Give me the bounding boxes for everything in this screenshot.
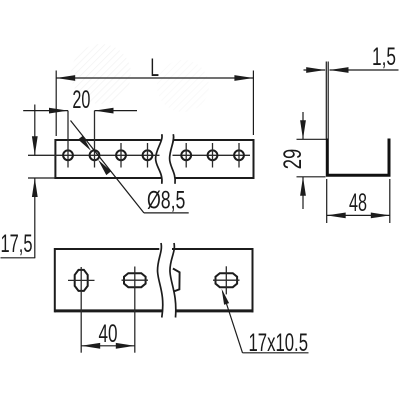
- arrow at hole H2 lower right: [98, 160, 111, 175]
- svg-text:29: 29: [279, 149, 307, 170]
- strip outline top view: [55, 139, 254, 179]
- svg-text:48: 48: [349, 189, 367, 217]
- break line S3 bottom view: [158, 243, 163, 318]
- leader diameter 8,5 line through hole H2: [71, 121, 144, 213]
- dimension 17,5 extension line bottom: [28, 177, 55, 179]
- wall face projection double line: [325, 62, 327, 139]
- watermark logo hatched circle: [71, 44, 209, 112]
- hole H4 round: [143, 150, 153, 160]
- horizontal centerline left segment: [28, 154, 160, 156]
- dimension 29 lower segment up arrow: [302, 177, 304, 209]
- break line S1 top view: [156, 134, 162, 184]
- dimension 48 line with arrows: [327, 214, 390, 216]
- hole H2 round: [90, 150, 100, 160]
- break line S2 top view: [170, 134, 176, 184]
- dimension 17,5 vertical line lower segment with up arrow: [34, 178, 36, 258]
- dimension 40 extension lines: [80, 311, 82, 353]
- svg-text:1,5: 1,5: [372, 43, 396, 71]
- dimension 20 line with outside arrows: [23, 110, 68, 112]
- break line S4 bottom view: [170, 243, 176, 318]
- vertical centerlines holes H3-H7: [121, 143, 239, 168]
- slot fragment at break: [173, 269, 180, 292]
- svg-text:17,5: 17,5: [1, 230, 33, 258]
- strip outline bottom view: [55, 248, 253, 312]
- hole H6 round: [208, 150, 218, 160]
- label 17x10.5 leader with arrow to slot O3: [223, 292, 243, 353]
- leader shelf 8,5: [144, 212, 189, 214]
- dimension 48 extension lines: [326, 179, 328, 223]
- U profile thick outline: [327, 139, 389, 176]
- dimension 17,5 underline: [1, 257, 36, 259]
- slot O3 horizontal oblong: [216, 273, 238, 287]
- svg-text:Ø8,5: Ø8,5: [147, 186, 185, 214]
- horizontal centerline right segment: [173, 154, 251, 156]
- dimension 29 extension lines: [297, 138, 327, 140]
- svg-text:40: 40: [99, 320, 118, 348]
- hole H1 round: [63, 150, 73, 160]
- arrow at hole H2 upper left: [78, 136, 91, 151]
- slot O1 vertical oblong: [75, 270, 88, 291]
- hole H5 round: [181, 150, 191, 160]
- hole H3 round: [116, 150, 126, 160]
- dimension 40 line with arrows: [81, 345, 135, 347]
- dimension L line with arrows: [56, 77, 253, 79]
- svg-text:20: 20: [72, 86, 90, 114]
- dimension 1,5 right tail arrow: [330, 69, 399, 71]
- slot O3 centerlines: [213, 279, 240, 281]
- svg-text:L: L: [150, 54, 159, 82]
- dimension L extension lines: [55, 71, 57, 137]
- hole H7 round: [234, 150, 244, 160]
- dimension 29 upper segment down arrow: [302, 112, 304, 139]
- label 17x10.5 shelf: [243, 352, 309, 354]
- slot O1 centerlines: [68, 279, 95, 281]
- slot O2 centerlines: [122, 279, 149, 281]
- svg-text:17x10.5: 17x10.5: [249, 329, 309, 357]
- slot O2 horizontal oblong: [124, 273, 146, 287]
- dimension 17,5 vertical line upper segment with down arrow: [34, 105, 36, 156]
- dimension 1,5 left tail arrow: [304, 69, 326, 71]
- dimension 20 extension lines (through holes H1 H2): [67, 111, 69, 168]
